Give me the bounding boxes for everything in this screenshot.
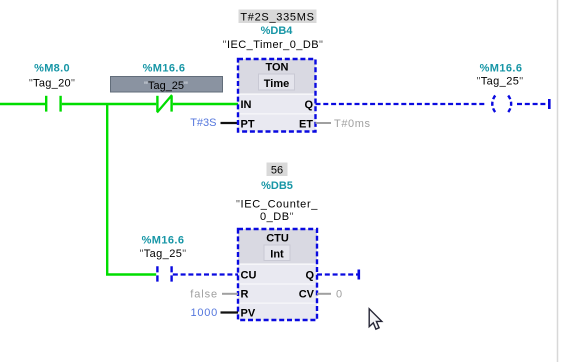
wire: rung1 to TON IN xyxy=(173,103,238,105)
coil %M16.6 "Tag_25" xyxy=(492,96,511,113)
svg-text:%M8.0: %M8.0 xyxy=(34,63,70,75)
svg-text:CV: CV xyxy=(299,289,315,301)
editor pane right border xyxy=(557,0,559,362)
svg-text:CTU: CTU xyxy=(266,232,289,244)
wire: CV output stub (gray) xyxy=(317,293,331,295)
wire: coil to right tick xyxy=(517,103,548,105)
svg-text:Q: Q xyxy=(304,99,313,111)
wire: branch horizontal to contact xyxy=(106,273,156,275)
wire: R input stub (gray) xyxy=(222,293,238,295)
svg-text:PV: PV xyxy=(241,308,256,320)
svg-text:56: 56 xyxy=(271,165,283,177)
svg-text:%M16.6: %M16.6 xyxy=(480,63,523,75)
svg-text:%DB4: %DB4 xyxy=(261,25,294,37)
timer TON block %DB4 xyxy=(238,59,316,132)
svg-text:TON: TON xyxy=(265,61,288,73)
svg-text:"IEC_Counter_: "IEC_Counter_ xyxy=(236,198,318,210)
contact %M16.6 "Tag_25" (NO, blue dashed) xyxy=(157,266,171,281)
wire: PV input stub (black) xyxy=(221,311,239,313)
wire: branch vertical down xyxy=(106,104,108,275)
svg-text:Q: Q xyxy=(305,269,314,281)
svg-text:%M16.6: %M16.6 xyxy=(142,235,185,247)
counter CTU block %DB5 xyxy=(238,229,317,320)
wire: Q output dashed to coil xyxy=(316,103,487,105)
svg-text:ET: ET xyxy=(299,118,313,130)
svg-text:%M16.6: %M16.6 xyxy=(143,63,186,75)
label T#2S_335MS (monitor value, highlighted) xyxy=(239,10,317,24)
svg-text:"Tag_25": "Tag_25" xyxy=(476,76,523,88)
svg-text:T#0ms: T#0ms xyxy=(334,118,371,130)
wire: PT input stub (black) xyxy=(221,122,239,124)
svg-text:PT: PT xyxy=(241,118,255,130)
svg-text:1000: 1000 xyxy=(191,307,218,319)
svg-text:"Tag_25": "Tag_25" xyxy=(139,248,186,260)
svg-text:IN: IN xyxy=(241,99,252,111)
svg-text:Time: Time xyxy=(264,78,289,90)
rail end tick (rung1) xyxy=(548,99,551,109)
svg-text:"Tag_25": "Tag_25" xyxy=(144,80,188,92)
svg-text:T#2S_335MS: T#2S_335MS xyxy=(240,12,314,24)
rail end tick (rung2) xyxy=(357,270,360,280)
svg-text:0: 0 xyxy=(336,289,342,301)
svg-text:CU: CU xyxy=(241,269,257,281)
svg-text:R: R xyxy=(241,289,249,301)
contact %M16.6 "Tag_25" (NC, green) xyxy=(157,95,172,113)
label 56 (monitor value, highlighted) xyxy=(267,163,288,177)
svg-text:%DB5: %DB5 xyxy=(261,180,293,192)
svg-text:"Tag_20": "Tag_20" xyxy=(29,78,75,90)
svg-text:T#3S: T#3S xyxy=(190,117,216,129)
contact %M8.0 "Tag_20" (NO, energized green) xyxy=(46,96,60,112)
wire: contact to CTU CU (dashed) xyxy=(173,273,238,275)
wire: ET output stub (gray) xyxy=(316,122,332,124)
svg-text:0_DB": 0_DB" xyxy=(260,211,294,223)
selected operand highlight box "Tag_25" xyxy=(111,77,223,93)
mouse cursor xyxy=(369,309,382,329)
svg-text:false: false xyxy=(190,289,218,301)
wire: rung1 between contacts xyxy=(62,103,156,105)
wire: rung1 left rail segment xyxy=(0,103,45,105)
wire: CTU Q output dashed xyxy=(317,273,358,275)
svg-text:"IEC_Timer_0_DB": "IEC_Timer_0_DB" xyxy=(223,39,324,51)
svg-text:Int: Int xyxy=(270,248,284,260)
